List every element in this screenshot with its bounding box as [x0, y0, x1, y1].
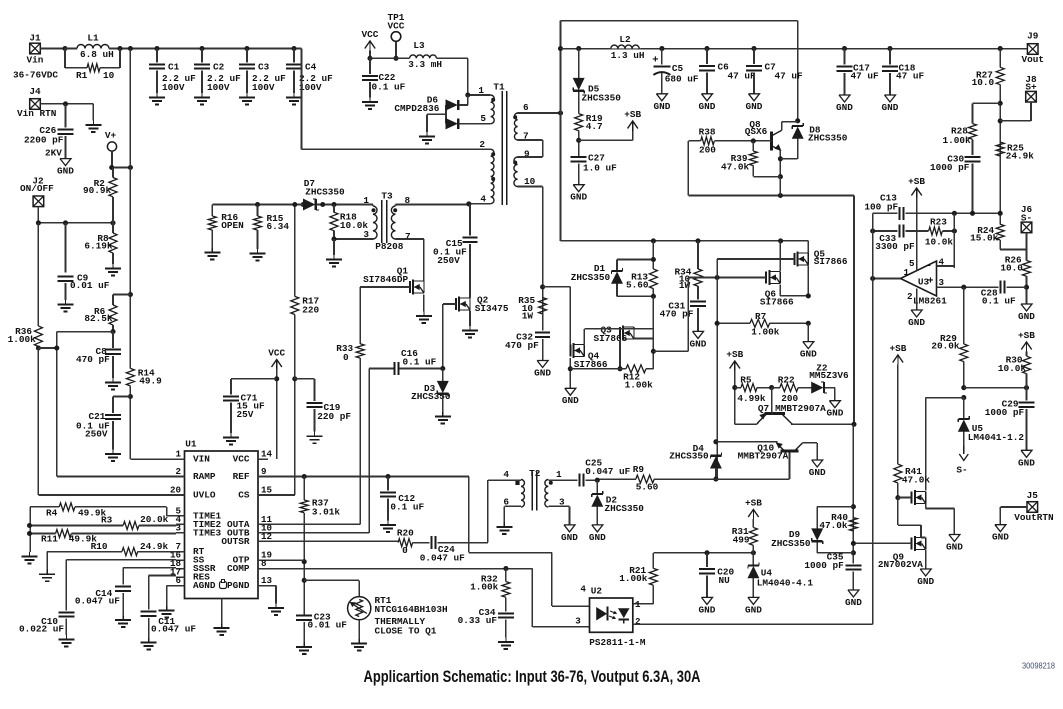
- svg-text:VCC: VCC: [233, 454, 250, 465]
- svg-text:S-: S-: [956, 465, 967, 476]
- svg-text:NTCG164BH103H: NTCG164BH103H: [375, 604, 448, 615]
- svg-text:0.1 uF: 0.1 uF: [390, 501, 424, 512]
- svg-text:P8208: P8208: [375, 241, 404, 252]
- svg-text:RAMP: RAMP: [193, 471, 216, 482]
- svg-text:GND: GND: [653, 101, 670, 112]
- svg-text:GND: GND: [826, 408, 843, 419]
- svg-text:0.047 uF: 0.047 uF: [75, 596, 120, 607]
- svg-text:GND: GND: [845, 597, 862, 608]
- svg-text:SI7866: SI7866: [760, 296, 794, 307]
- svg-text:GND: GND: [946, 542, 963, 553]
- svg-text:+SB: +SB: [1018, 330, 1035, 341]
- svg-text:13: 13: [261, 575, 273, 586]
- svg-text:100 pF: 100 pF: [864, 201, 898, 212]
- svg-text:10.0k: 10.0k: [925, 236, 954, 247]
- svg-text:V+: V+: [105, 130, 117, 141]
- svg-text:20.0k: 20.0k: [931, 341, 960, 352]
- svg-text:R22: R22: [778, 374, 795, 385]
- svg-text:GND: GND: [800, 349, 817, 360]
- svg-text:+SB: +SB: [908, 176, 925, 187]
- svg-text:Applicartion Schematic: Input: Applicartion Schematic: Input 36-76, Vou…: [364, 668, 701, 686]
- svg-text:MM5Z3V6: MM5Z3V6: [809, 370, 849, 381]
- svg-text:C5: C5: [672, 63, 684, 74]
- svg-text:1: 1: [363, 195, 369, 206]
- svg-text:R4: R4: [46, 507, 58, 518]
- svg-text:VCC: VCC: [362, 29, 379, 40]
- svg-text:4: 4: [503, 469, 509, 480]
- svg-text:J5: J5: [1027, 490, 1039, 501]
- svg-text:T2: T2: [529, 468, 541, 479]
- svg-text:220 pF: 220 pF: [317, 411, 351, 422]
- svg-text:47 uF: 47 uF: [896, 71, 925, 82]
- svg-text:6: 6: [523, 102, 529, 113]
- svg-text:24.9k: 24.9k: [140, 541, 169, 552]
- svg-text:LM4041-1.2: LM4041-1.2: [968, 432, 1025, 443]
- svg-text:0: 0: [402, 545, 408, 556]
- svg-text:AGND: AGND: [193, 580, 216, 591]
- svg-text:+SB: +SB: [745, 498, 762, 509]
- svg-text:SI3475: SI3475: [475, 303, 509, 314]
- svg-text:470 pF: 470 pF: [76, 354, 110, 365]
- svg-text:4: 4: [580, 584, 586, 595]
- svg-text:1.00k: 1.00k: [751, 326, 780, 337]
- svg-text:8: 8: [261, 558, 267, 569]
- svg-text:GND: GND: [809, 467, 826, 478]
- svg-text:1.0 uF: 1.0 uF: [583, 163, 617, 174]
- svg-text:5: 5: [480, 113, 486, 124]
- svg-text:GND: GND: [917, 576, 934, 587]
- svg-text:100V: 100V: [162, 82, 185, 93]
- svg-text:90.9k: 90.9k: [83, 185, 112, 196]
- svg-text:6.19k: 6.19k: [84, 241, 113, 252]
- svg-text:Vin: Vin: [27, 55, 44, 66]
- svg-text:VCC: VCC: [388, 21, 405, 32]
- svg-text:VCC: VCC: [268, 348, 285, 359]
- svg-text:R20: R20: [397, 528, 414, 539]
- svg-text:250V: 250V: [437, 255, 460, 266]
- svg-text:100V: 100V: [299, 82, 322, 93]
- svg-text:VoutRTN: VoutRTN: [1014, 512, 1054, 523]
- svg-text:3: 3: [939, 277, 945, 288]
- svg-text:GND: GND: [690, 338, 707, 349]
- svg-text:TIME3: TIME3: [193, 527, 222, 538]
- svg-text:10.0: 10.0: [972, 77, 995, 88]
- svg-text:C2: C2: [213, 62, 225, 73]
- svg-text:CMPD2836: CMPD2836: [394, 103, 439, 114]
- svg-text:2N7002VA: 2N7002VA: [878, 559, 923, 570]
- svg-text:1.00k: 1.00k: [625, 380, 654, 391]
- svg-text:100V: 100V: [207, 82, 230, 93]
- svg-text:0.022 uF: 0.022 uF: [19, 624, 64, 635]
- svg-text:U1: U1: [185, 439, 197, 450]
- svg-text:UVLO: UVLO: [193, 490, 216, 501]
- svg-text:GND: GND: [57, 166, 74, 177]
- svg-text:20.0k: 20.0k: [140, 514, 169, 525]
- svg-text:15.0k: 15.0k: [970, 232, 999, 243]
- svg-text:0.33 uF: 0.33 uF: [458, 615, 498, 626]
- svg-text:499: 499: [733, 535, 750, 546]
- svg-text:R11: R11: [41, 534, 58, 545]
- svg-text:0.01 uF: 0.01 uF: [308, 620, 348, 631]
- svg-text:3.01k: 3.01k: [312, 506, 341, 517]
- svg-text:10.0: 10.0: [1000, 263, 1023, 274]
- svg-text:C4: C4: [305, 62, 317, 73]
- svg-text:T1: T1: [493, 82, 505, 93]
- svg-text:14: 14: [261, 449, 273, 460]
- svg-text:0.1 uF: 0.1 uF: [372, 81, 406, 92]
- svg-text:1: 1: [478, 85, 484, 96]
- svg-text:R23: R23: [930, 216, 947, 227]
- svg-text:Vin RTN: Vin RTN: [17, 108, 57, 119]
- svg-text:3300 pF: 3300 pF: [875, 241, 915, 252]
- svg-text:GND: GND: [1018, 457, 1035, 468]
- svg-text:COMP: COMP: [227, 563, 250, 574]
- svg-text:+SB: +SB: [726, 349, 743, 360]
- svg-text:GND: GND: [908, 317, 925, 328]
- svg-text:2: 2: [479, 139, 485, 150]
- svg-text:ZHCS350: ZHCS350: [669, 450, 709, 461]
- svg-text:1000 pF: 1000 pF: [985, 407, 1025, 418]
- svg-text:OUTSR: OUTSR: [221, 536, 250, 547]
- svg-text:SI7846DP: SI7846DP: [363, 274, 408, 285]
- svg-text:2: 2: [907, 291, 913, 302]
- svg-text:0.01 uF: 0.01 uF: [70, 280, 110, 291]
- svg-text:ZHCS350: ZHCS350: [571, 272, 611, 283]
- svg-text:680 uF: 680 uF: [665, 73, 699, 84]
- svg-text:PGND: PGND: [227, 580, 250, 591]
- svg-text:30098218: 30098218: [1022, 661, 1055, 671]
- svg-text:82.5k: 82.5k: [84, 313, 113, 324]
- svg-text:REF: REF: [233, 471, 250, 482]
- svg-text:L1: L1: [87, 33, 99, 44]
- svg-text:47 uF: 47 uF: [851, 71, 880, 82]
- svg-text:+SB: +SB: [624, 109, 641, 120]
- svg-text:OPEN: OPEN: [221, 220, 244, 231]
- svg-text:GND: GND: [699, 604, 716, 615]
- svg-text:CLOSE TO Q1: CLOSE TO Q1: [375, 626, 437, 637]
- svg-text:5.60: 5.60: [626, 280, 649, 291]
- svg-text:49.9: 49.9: [139, 376, 162, 387]
- svg-text:SI7866: SI7866: [814, 256, 848, 267]
- svg-text:GND: GND: [699, 101, 716, 112]
- svg-text:0.047 uF: 0.047 uF: [151, 624, 196, 635]
- svg-text:47.0k: 47.0k: [819, 520, 848, 531]
- svg-text:10: 10: [103, 70, 115, 81]
- svg-text:GND: GND: [1018, 311, 1035, 322]
- svg-text:100V: 100V: [252, 82, 275, 93]
- svg-text:+: +: [652, 55, 658, 67]
- svg-text:GND: GND: [561, 532, 578, 543]
- svg-text:GND: GND: [562, 395, 579, 406]
- svg-text:PS2811-1-M: PS2811-1-M: [589, 637, 646, 648]
- svg-text:47 uF: 47 uF: [728, 70, 757, 81]
- svg-text:15: 15: [261, 485, 273, 496]
- svg-text:NU: NU: [719, 575, 731, 586]
- svg-text:LM8261: LM8261: [913, 296, 947, 307]
- svg-text:2: 2: [635, 616, 641, 627]
- svg-text:1: 1: [556, 469, 562, 480]
- svg-text:1.00k: 1.00k: [943, 135, 972, 146]
- svg-text:2KV: 2KV: [45, 147, 62, 158]
- svg-text:1: 1: [175, 449, 181, 460]
- svg-text:GND: GND: [836, 102, 853, 113]
- svg-text:-: -: [926, 261, 932, 272]
- svg-text:R1: R1: [76, 70, 88, 81]
- svg-text:R9: R9: [633, 464, 645, 475]
- svg-text:GND: GND: [589, 532, 606, 543]
- svg-text:ON/OFF: ON/OFF: [20, 183, 54, 194]
- svg-text:1W: 1W: [522, 311, 534, 322]
- svg-text:VIN: VIN: [193, 454, 210, 465]
- svg-text:C3: C3: [258, 62, 270, 73]
- svg-text:3: 3: [175, 522, 181, 533]
- svg-text:10: 10: [524, 176, 536, 187]
- svg-text:J4: J4: [29, 86, 41, 97]
- svg-text:R3: R3: [101, 514, 113, 525]
- svg-text:R7: R7: [755, 311, 766, 322]
- svg-text:12: 12: [261, 531, 272, 542]
- svg-text:+SB: +SB: [889, 343, 906, 354]
- svg-text:47.0k: 47.0k: [902, 474, 931, 485]
- svg-text:C1: C1: [168, 62, 180, 73]
- svg-text:2: 2: [175, 466, 181, 477]
- svg-text:ZHCS350: ZHCS350: [771, 538, 811, 549]
- svg-text:T3: T3: [381, 190, 393, 201]
- svg-text:5: 5: [909, 258, 915, 269]
- svg-text:0.1 uF: 0.1 uF: [403, 357, 437, 368]
- svg-text:6.8 uH: 6.8 uH: [80, 49, 114, 60]
- svg-text:9: 9: [524, 149, 530, 160]
- svg-text:3: 3: [363, 229, 369, 240]
- svg-text:GND: GND: [992, 532, 1009, 543]
- svg-text:36-76VDC: 36-76VDC: [13, 70, 58, 81]
- svg-text:ZHCS350: ZHCS350: [808, 133, 848, 144]
- svg-text:3.3 mH: 3.3 mH: [408, 59, 442, 70]
- svg-text:4: 4: [480, 193, 486, 204]
- svg-text:24.9k: 24.9k: [1006, 151, 1035, 162]
- svg-text:R38: R38: [699, 126, 716, 137]
- svg-text:GND: GND: [746, 101, 763, 112]
- svg-text:ZHCS350: ZHCS350: [305, 186, 345, 197]
- svg-text:470 pF: 470 pF: [505, 340, 539, 351]
- svg-text:3: 3: [575, 616, 581, 627]
- svg-text:L3: L3: [413, 40, 425, 51]
- svg-text:R5: R5: [740, 374, 752, 385]
- svg-text:47 uF: 47 uF: [775, 70, 804, 81]
- svg-text:0.1 uF: 0.1 uF: [982, 295, 1016, 306]
- svg-text:47.0k: 47.0k: [721, 162, 750, 173]
- svg-text:6.34: 6.34: [267, 221, 290, 232]
- svg-text:6: 6: [175, 575, 181, 586]
- svg-text:LM4040-4.1: LM4040-4.1: [757, 577, 814, 588]
- svg-text:9: 9: [261, 466, 267, 477]
- svg-text:20: 20: [170, 485, 181, 496]
- svg-text:ZHCS350: ZHCS350: [582, 93, 622, 104]
- svg-text:0.047 uF: 0.047 uF: [585, 466, 630, 477]
- svg-text:Vout: Vout: [1021, 54, 1044, 65]
- svg-text:0: 0: [343, 352, 349, 363]
- svg-text:CS: CS: [238, 490, 250, 501]
- svg-text:7: 7: [405, 231, 411, 242]
- svg-text:1.00k: 1.00k: [8, 334, 37, 345]
- svg-text:0.047 uF: 0.047 uF: [420, 552, 465, 563]
- svg-text:GND: GND: [570, 192, 587, 203]
- svg-text:5.60: 5.60: [636, 482, 659, 493]
- svg-text:200: 200: [699, 145, 716, 156]
- svg-text:R10: R10: [91, 541, 108, 552]
- svg-text:GND: GND: [745, 604, 762, 615]
- svg-text:1000 pF: 1000 pF: [930, 162, 970, 173]
- svg-text:4.7: 4.7: [586, 121, 603, 132]
- svg-text:ZHCS350: ZHCS350: [605, 503, 645, 514]
- svg-text:+: +: [927, 277, 933, 288]
- svg-text:U2: U2: [591, 586, 603, 597]
- svg-text:250V: 250V: [85, 428, 108, 439]
- svg-text:J9: J9: [1027, 31, 1039, 42]
- svg-text:QSX6: QSX6: [745, 126, 768, 137]
- svg-text:2200 pF: 2200 pF: [24, 135, 64, 146]
- svg-text:1000 pF: 1000 pF: [804, 560, 844, 571]
- svg-text:1.3 uH: 1.3 uH: [611, 50, 645, 61]
- svg-text:J1: J1: [29, 33, 41, 44]
- svg-text:GND: GND: [882, 102, 899, 113]
- svg-text:1.00k: 1.00k: [619, 573, 648, 584]
- svg-text:1: 1: [635, 599, 641, 610]
- svg-text:1.00k: 1.00k: [470, 582, 499, 593]
- svg-text:25V: 25V: [237, 409, 254, 420]
- svg-text:GND: GND: [534, 368, 551, 379]
- svg-text:220: 220: [302, 304, 319, 315]
- svg-text:10.0k: 10.0k: [998, 363, 1027, 374]
